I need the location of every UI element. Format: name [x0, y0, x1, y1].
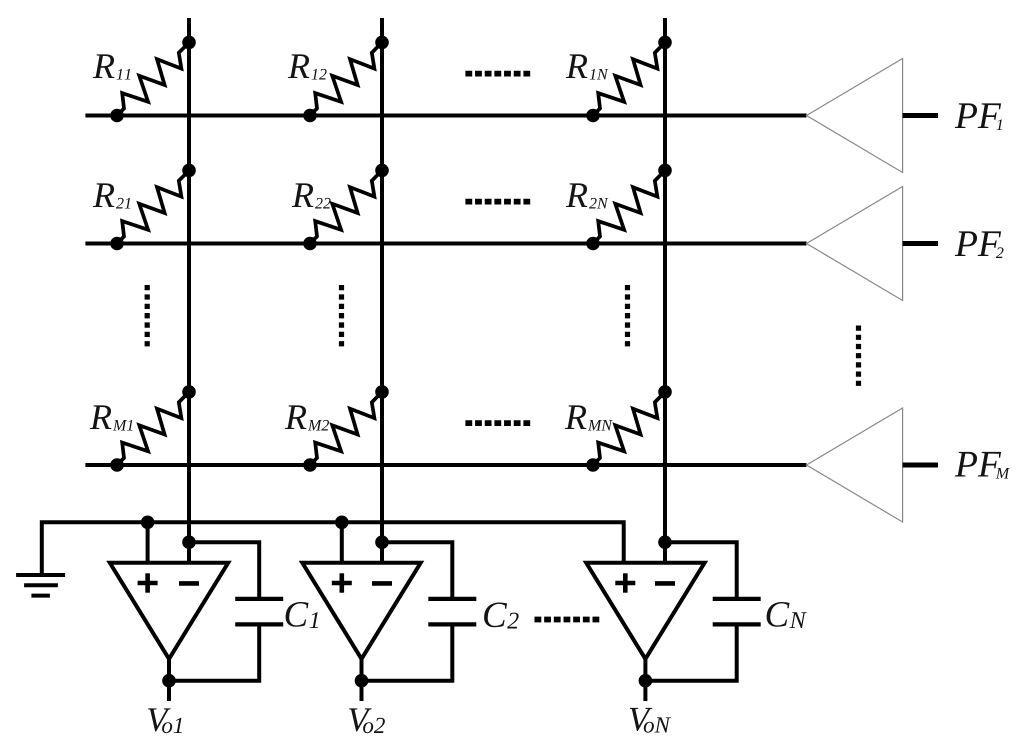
- label PF1: [955, 103, 1002, 130]
- label CN: [767, 602, 807, 628]
- label R11: [93, 54, 131, 79]
- junction node: + input U2 on ground bus: [335, 516, 349, 530]
- op-amp U1 minus sign: [179, 581, 199, 586]
- op-amp U2 (triangle): [302, 563, 420, 659]
- wire row line 2 (horizontal): [85, 242, 806, 246]
- label R2N: [566, 183, 609, 208]
- resistor R22: [310, 170, 382, 243]
- wire output stem U1: [167, 657, 171, 701]
- resistor R21: [117, 170, 189, 243]
- ellipsis dots between C2 and op-amp UN: [535, 617, 600, 623]
- junction node: R11 on column 1: [182, 36, 196, 50]
- label R12: [288, 54, 327, 79]
- resistor R2N: [593, 170, 665, 243]
- wire column line N (vertical): [663, 18, 667, 563]
- wire column line 1 (vertical): [187, 18, 191, 563]
- resistor R1N: [593, 42, 665, 115]
- label C1: [286, 602, 319, 628]
- junction node: R12 on column 2: [375, 36, 389, 50]
- ellipsis dots between PF2 and PFM buffers: [856, 326, 861, 387]
- junction node: inverting input U1 (column 1): [182, 535, 196, 549]
- resistor RM2: [310, 392, 382, 465]
- junction node: R21 on column 1: [182, 164, 196, 178]
- junction node: R11 on row 1: [110, 109, 124, 123]
- wire feedback from - input U1 to capacitor C1: [189, 542, 259, 597]
- label RM1: [90, 405, 133, 430]
- ground symbol: [16, 575, 65, 596]
- wire row line 1 (horizontal): [85, 114, 806, 118]
- ellipsis dots on column 1: [145, 285, 150, 347]
- capacitor CN: [713, 599, 761, 625]
- wire feedback from - input U2 to capacitor C2: [382, 542, 452, 597]
- wire feedback from - input UN to capacitor CN: [665, 542, 737, 597]
- label PF2: [955, 231, 1004, 258]
- wire row line M (horizontal): [85, 463, 806, 467]
- label RMN: [565, 405, 613, 430]
- wire buffer PF2 input stub: [903, 241, 938, 246]
- wire op-amp U1 non-inverting input stub: [146, 522, 150, 563]
- junction node: R2N on row 2: [586, 237, 600, 251]
- label R1N: [566, 54, 609, 79]
- label R22: [292, 183, 331, 208]
- wire buffer PFM input stub: [903, 463, 938, 468]
- label PFM: [955, 452, 1010, 479]
- op-amp U1 plus sign: [138, 573, 158, 592]
- junction node: R12 on row 1: [303, 109, 317, 123]
- junction node: R21 on row 2: [110, 237, 124, 251]
- junction node: RMN on row M: [586, 458, 600, 472]
- capacitor C1: [235, 599, 283, 625]
- label RM2: [285, 405, 329, 430]
- junction node: R1N on row 1: [586, 109, 600, 123]
- junction node: inverting input UN (column N): [658, 535, 672, 549]
- junction node: RM1 on column 1: [182, 385, 196, 399]
- ellipsis dots on row 2: [465, 199, 530, 205]
- label C2: [484, 603, 519, 629]
- junction node: output UN: [639, 674, 653, 688]
- buffer amplifier PF1 (triangle): [807, 59, 903, 173]
- junction node: output U2: [355, 674, 369, 688]
- wire from capacitor CN to output UN: [645, 626, 736, 680]
- ellipsis dots on row 1: [465, 71, 530, 77]
- wire output stem UN: [643, 657, 647, 701]
- junction node: inverting input U2 (column 2): [375, 535, 389, 549]
- resistor R12: [310, 42, 382, 115]
- wire column line 2 (vertical): [380, 18, 384, 563]
- junction node: R22 on column 2: [375, 164, 389, 178]
- junction node: R22 on row 2: [303, 237, 317, 251]
- resistor R11: [117, 42, 189, 115]
- junction node: R2N on column N: [658, 164, 672, 178]
- label Vo1: [148, 708, 182, 733]
- junction node: R1N on column N: [658, 36, 672, 50]
- resistor RMN: [593, 392, 665, 465]
- op-amp U2 plus sign: [332, 573, 352, 592]
- op-amp U2 minus sign: [372, 581, 392, 586]
- ellipsis dots on column 2: [339, 285, 344, 347]
- ellipsis dots on column N: [625, 285, 630, 347]
- op-amp UN minus sign: [655, 581, 675, 586]
- wire from capacitor C2 to output U2: [362, 626, 453, 680]
- capacitor C2: [428, 599, 476, 625]
- junction node: RMN on column N: [658, 385, 672, 399]
- op-amp UN (triangle): [586, 563, 704, 659]
- wire from capacitor C1 to output U1: [169, 626, 259, 680]
- label R21: [93, 183, 131, 208]
- label VoN: [630, 708, 671, 733]
- wire ground / non-inverting input bus: [42, 522, 624, 573]
- junction node: RM2 on column 2: [375, 385, 389, 399]
- wire buffer PF1 input stub: [903, 113, 938, 118]
- ellipsis dots on row M: [465, 420, 530, 426]
- junction node: RM1 on row M: [110, 458, 124, 472]
- label Vo2: [349, 708, 385, 733]
- wire output stem U2: [360, 657, 364, 701]
- buffer amplifier PFM (triangle): [807, 408, 903, 522]
- junction node: + input U1 on ground bus: [141, 516, 155, 530]
- junction node: output U1: [162, 674, 176, 688]
- buffer amplifier PF2 (triangle): [807, 187, 903, 301]
- op-amp U1 (triangle): [110, 563, 228, 659]
- wire op-amp U2 non-inverting input stub: [340, 522, 344, 563]
- resistor RM1: [117, 392, 189, 465]
- junction node: RM2 on row M: [303, 458, 317, 472]
- op-amp UN plus sign: [615, 573, 635, 592]
